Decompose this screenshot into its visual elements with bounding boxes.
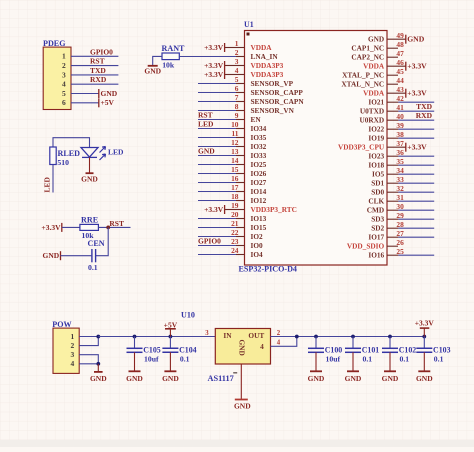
ground POW [97,364,99,372]
wire junction down to CEN [96,227,109,255]
svg-text:3: 3 [235,57,239,66]
svg-text:CAP1_NC: CAP1_NC [351,44,384,53]
ground C105 [134,352,136,371]
svg-text:38: 38 [396,130,404,139]
svg-text:37: 37 [396,139,404,148]
connector PDEG body [43,47,71,109]
ground below LED [89,157,91,173]
ground C101 [352,352,354,371]
svg-text:VDD3P3_RTC: VDD3P3_RTC [251,205,297,214]
resistor RANT [162,53,179,60]
svg-text:RXD: RXD [90,75,107,84]
svg-text:39: 39 [396,121,404,130]
svg-text:GND: GND [144,66,161,75]
svg-text:VDD_SDIO: VDD_SDIO [347,242,385,251]
svg-text:IN: IN [223,331,232,340]
junction U10 pin4 [295,335,299,339]
svg-text:GND: GND [81,174,98,183]
LED D1 diode [81,148,98,158]
ground C102 [389,352,391,371]
power port tick [98,89,100,98]
svg-text:SENSOR_VP: SENSOR_VP [251,79,294,88]
svg-text:IO5: IO5 [372,170,385,179]
wire C102 top [389,337,391,349]
svg-text:29: 29 [396,211,404,220]
svg-text:U0RXD: U0RXD [359,116,384,125]
svg-text:0.1: 0.1 [363,355,373,364]
svg-text:0.1: 0.1 [400,355,410,364]
junction C101 [351,335,355,339]
ground C103 [423,352,425,371]
svg-text:510: 510 [57,158,69,167]
svg-text:TXD: TXD [90,66,106,75]
connector POW body [53,328,79,373]
ground C100 [315,352,317,371]
svg-text:IO14: IO14 [251,187,267,196]
svg-text:RANT: RANT [162,44,186,53]
svg-text:49: 49 [396,31,404,40]
wire POW pin4 [79,363,98,365]
svg-text:POW: POW [52,320,71,329]
svg-text:48: 48 [396,40,404,49]
svg-text:34: 34 [396,166,404,175]
svg-text:+3.3V: +3.3V [407,62,427,71]
wire C103 top [423,337,425,349]
junction C105 [133,335,137,339]
U1 pin 14 IO25 [198,156,267,169]
svg-text:GND: GND [308,374,325,383]
svg-text:IO17: IO17 [368,233,384,242]
wire PDEG pin 5 [71,93,99,95]
svg-text:28: 28 [396,220,404,229]
U1 pin 23 IO0 [198,237,263,250]
resistor RLED [50,147,56,165]
wire PDEG pin 1 [71,55,118,57]
svg-text:32: 32 [396,184,404,193]
wire +3.3V to RRE [62,226,80,228]
svg-text:6: 6 [235,84,239,93]
capacitor C104 [162,347,178,349]
U1 pin 43 VDDA [363,85,427,98]
U1 pin 5 SENSOR_VP [198,75,294,88]
U1 pin 38 IO19 [368,130,434,143]
svg-text:RST: RST [90,57,105,66]
svg-text:10k: 10k [162,61,175,70]
U1 pin 45 XTAL_P_NC [342,67,404,80]
svg-text:IO26: IO26 [251,169,267,178]
svg-text:IO4: IO4 [251,250,264,259]
U1 pin 41 U0TXD [360,102,434,116]
U1 pin 37 VDD3P3_CPU [338,139,427,152]
svg-text:C104: C104 [179,345,197,354]
U1 pin 31 CLK [368,193,434,206]
svg-text:U1: U1 [244,20,254,29]
capacitor CEN [91,249,93,262]
svg-text:10: 10 [231,120,239,129]
svg-text:21: 21 [231,219,239,228]
U1 pin 15 IO26 [198,165,267,178]
svg-text:VDDA: VDDA [251,43,273,52]
svg-text:13: 13 [231,147,239,156]
U1 pin 33 SD1 [371,175,434,188]
svg-text:25: 25 [396,247,404,256]
U1 pin 19 VDD3P3_RTC [204,201,297,214]
U1 pin 18 IO12 [198,192,267,205]
svg-text:1: 1 [62,52,66,61]
svg-text:GND: GND [345,374,362,383]
U1 pin 34 IO5 [372,166,434,179]
wire U10 out rail [271,336,425,338]
U1 pin 30 CMD [367,202,434,215]
wire POW pin2 [79,337,98,346]
svg-text:VDDA: VDDA [363,89,385,98]
wire GND to CEN [61,255,92,257]
U1 pin 48 CAP1_NC [351,40,404,53]
wire RANT left to ground [153,56,162,65]
wire RRE to junction [98,226,130,228]
svg-text:+3.3V: +3.3V [415,319,435,328]
svg-text:20: 20 [231,210,239,219]
U1 pin 3 VDDA3P3 [204,57,284,70]
svg-text:IO0: IO0 [251,241,264,250]
svg-text:7: 7 [235,93,239,102]
U1 pin 40 U0RXD [359,111,434,125]
U1 pin 12 IO32 [198,138,267,151]
U1 pin 47 CAP2_NC [351,49,404,62]
wire C100 top [315,337,317,349]
svg-text:GND: GND [162,374,179,383]
svg-text:VDDA: VDDA [363,62,385,71]
U1 pin 11 IO35 [198,129,267,142]
svg-text:47: 47 [396,49,404,58]
wire POW pin1 to rail [79,336,98,338]
svg-text:18: 18 [231,192,239,201]
svg-text:0.1: 0.1 [88,263,98,272]
U1 pin 27 IO17 [368,229,434,242]
svg-text:14: 14 [231,156,239,165]
junction C100 [314,335,318,339]
svg-text:SENSOR_VN: SENSOR_VN [251,106,295,115]
svg-text:4: 4 [235,66,239,75]
svg-text:IO13: IO13 [251,214,267,223]
svg-text:30: 30 [396,202,404,211]
U1 pin 29 SD3 [371,211,434,224]
svg-text:IO32: IO32 [251,142,267,151]
wire RANT to U1 pin 2 [179,56,236,58]
wire PDEG pin 4 [71,83,118,85]
svg-text:ESP32-PICO-D4: ESP32-PICO-D4 [239,264,297,273]
svg-text:CLK: CLK [368,197,384,206]
svg-text:15: 15 [231,165,239,174]
svg-text:IO12: IO12 [251,196,267,205]
U1 pin 28 SD2 [371,220,434,233]
svg-text:AS1117: AS1117 [208,374,234,383]
svg-text:35: 35 [396,157,404,166]
U1 pin 39 IO22 [368,121,434,134]
junction RST node [106,226,110,230]
wire POW pin3 [79,355,98,364]
svg-text:11: 11 [232,129,239,138]
junction C104 [169,335,173,339]
U1 pin 17 IO14 [198,183,267,196]
wire C101 top [352,337,354,349]
svg-text:+5V: +5V [164,320,178,329]
U1 pin 36 IO23 [368,148,434,161]
svg-text:0.1: 0.1 [180,355,190,364]
ground RANT [148,65,158,67]
U1 pin 4 VDDA3P3 [204,66,284,79]
svg-text:46: 46 [396,58,404,67]
svg-text:24: 24 [231,246,239,255]
svg-text:3: 3 [70,350,74,359]
capacitor C102 [382,347,398,349]
svg-text:33: 33 [396,175,404,184]
regulator U10 body [215,329,270,365]
svg-text:2: 2 [277,330,281,337]
svg-text:IO22: IO22 [368,125,384,134]
U1 pin 25 IO16 [368,247,434,260]
svg-text:SENSOR_CAPP: SENSOR_CAPP [251,88,304,97]
svg-text:C103: C103 [433,345,451,354]
LED arrow 1 [100,147,106,153]
svg-text:U10: U10 [181,310,195,319]
svg-text:RST: RST [109,219,124,228]
svg-text:GND: GND [368,35,384,44]
svg-text:U0TXD: U0TXD [360,107,384,116]
LED cathode bar [82,156,97,158]
svg-text:GND: GND [90,374,107,383]
U1 pin 21 IO15 [198,219,267,232]
svg-text:+3.3V: +3.3V [407,89,427,98]
svg-text:XTAL_N_NC: XTAL_N_NC [341,80,384,89]
junction POW gnd [96,362,100,366]
svg-text:IO15: IO15 [251,223,267,232]
junction C102 [388,335,392,339]
svg-text:SENSOR_CAPN: SENSOR_CAPN [251,97,305,106]
U1 pin 7 SENSOR_CAPN [198,93,304,106]
svg-text:GND: GND [238,340,247,356]
junction POW +5V [96,335,100,339]
wire RLED bottom [52,165,54,193]
svg-text:TXD: TXD [416,102,432,111]
svg-text:26: 26 [396,238,404,247]
svg-text:IO16: IO16 [368,251,384,260]
U1 pin 20 IO13 [198,210,267,223]
svg-text:RXD: RXD [416,111,433,120]
svg-text:12: 12 [231,138,239,147]
capacitor C101 [345,347,361,349]
svg-text:+3.3V: +3.3V [204,205,224,214]
svg-text:+3.3V: +3.3V [407,143,427,152]
U1 pin 2 LNA_IN [235,48,279,61]
U1 pin 16 IO27 [198,174,267,187]
wire U10 pin4 [271,337,297,347]
wire PDEG pin 2 [71,65,118,67]
svg-text:IO2: IO2 [251,232,264,241]
svg-text:17: 17 [231,183,239,192]
svg-text:36: 36 [396,148,404,157]
IC U1 body [245,31,388,266]
U1 pin 35 IO18 [368,157,434,170]
ground C104 [169,352,171,371]
svg-text:5: 5 [62,89,66,98]
svg-text:3: 3 [62,70,66,79]
svg-text:PDEG: PDEG [43,39,66,48]
svg-text:SD0: SD0 [371,188,384,197]
svg-text:IO34: IO34 [251,124,267,133]
svg-text:C102: C102 [399,345,417,354]
U1 pin 32 SD0 [371,184,434,197]
U1 pin 42 IO21 [368,94,434,107]
svg-text:9: 9 [235,111,239,120]
svg-text:2: 2 [235,48,239,57]
U1 pin 49 GND [368,31,425,44]
svg-text:RRE: RRE [81,216,98,225]
svg-text:19: 19 [231,201,239,210]
svg-text:SD1: SD1 [371,179,384,188]
svg-text:1: 1 [70,332,74,341]
svg-text:IO18: IO18 [368,161,384,170]
svg-text:IO27: IO27 [251,178,267,187]
svg-text:OUT: OUT [248,331,264,340]
svg-text:VDD3P3_CPU: VDD3P3_CPU [338,143,385,152]
svg-text:2: 2 [70,341,74,350]
svg-text:45: 45 [396,67,404,76]
LED arrow 2 [100,154,106,160]
svg-text:6: 6 [62,98,66,107]
power port tick [98,98,100,107]
svg-text:GND: GND [382,374,399,383]
svg-text:44: 44 [396,76,404,85]
svg-text:+5V: +5V [101,98,115,107]
svg-text:4: 4 [260,342,264,351]
svg-text:10uf: 10uf [326,355,341,364]
wire PDEG pin 6 [71,102,99,104]
capacitor C105 [127,347,143,349]
svg-text:23: 23 [231,237,239,246]
resistor RRE [80,224,99,230]
svg-text:C101: C101 [362,345,380,354]
svg-text:3: 3 [205,330,209,337]
svg-text:GND: GND [101,89,118,98]
U1 pin 26 VDD_SDIO [347,238,404,251]
svg-text:IO19: IO19 [368,134,384,143]
svg-text:CEN: CEN [88,239,105,248]
svg-text:27: 27 [396,229,404,238]
svg-text:C100: C100 [325,345,343,354]
svg-text:4: 4 [62,80,66,89]
svg-text:GND: GND [43,251,60,260]
U1 pin 1 VDDA [204,39,272,52]
svg-text:41: 41 [396,103,404,112]
U1 pin 24 IO4 [198,246,263,259]
svg-text:4: 4 [277,339,281,346]
svg-text:CAP2_NC: CAP2_NC [351,53,384,62]
svg-text:+3.3V: +3.3V [204,43,224,52]
svg-text:22: 22 [231,228,239,237]
svg-text:4: 4 [70,359,74,368]
svg-text:IO23: IO23 [368,152,384,161]
U1 pin 8 SENSOR_VN [198,102,295,115]
U1 pin 10 IO34 [198,120,267,133]
wire +5V rail [98,336,215,338]
svg-text:8: 8 [235,102,239,111]
svg-text:43: 43 [396,85,404,94]
svg-text:LED: LED [108,148,124,157]
junction C103 [422,335,426,339]
ground U10 [240,364,242,400]
U1 pin 44 XTAL_N_NC [341,76,404,89]
svg-text:RST: RST [198,111,213,120]
svg-text:LNA_IN: LNA_IN [251,52,279,61]
U1 pin1 marker dot [247,33,250,36]
U1 pin 46 VDDA [363,58,427,71]
svg-text:GND: GND [234,401,251,410]
wire PDEG pin 3 [71,74,118,76]
svg-text:1: 1 [235,39,239,48]
wire C104 top [169,337,171,349]
svg-text:2: 2 [62,61,66,70]
svg-text:40: 40 [396,112,404,121]
svg-text:IO21: IO21 [368,98,384,107]
svg-text:0.1: 0.1 [434,355,444,364]
capacitor C103 [416,347,432,349]
svg-text:+3.3V: +3.3V [204,61,224,70]
svg-text:+3.3V: +3.3V [204,70,224,79]
svg-text:EN: EN [251,115,262,124]
svg-text:IO25: IO25 [251,160,267,169]
svg-text:GPIO0: GPIO0 [198,237,221,246]
svg-text:VDDA3P3: VDDA3P3 [251,61,284,70]
svg-text:SD3: SD3 [371,215,384,224]
svg-text:GND: GND [416,374,433,383]
svg-text:42: 42 [396,94,404,103]
svg-text:GND: GND [407,35,425,44]
svg-text:RLED: RLED [58,149,81,158]
svg-text:GND: GND [198,147,215,156]
svg-text:5: 5 [235,75,239,84]
U1 pin 6 SENSOR_CAPP [198,84,303,97]
svg-text:XTAL_P_NC: XTAL_P_NC [342,71,384,80]
svg-text:SD2: SD2 [371,224,384,233]
svg-text:16: 16 [231,174,239,183]
svg-text:VDDA3P3: VDDA3P3 [251,70,284,79]
wire RLED top [53,138,90,148]
U1 pin 13 IO33 [198,147,267,160]
capacitor C100 [308,347,324,349]
svg-text:IO35: IO35 [251,133,267,142]
svg-text:GND: GND [126,374,143,383]
svg-text:LED: LED [43,176,52,192]
U10 pin 1 number dash [233,372,237,374]
svg-text:GPIO0: GPIO0 [90,47,113,56]
wire C105 top [134,337,136,349]
svg-text:LED: LED [198,120,214,129]
U1 pin 9 EN [198,111,261,124]
svg-text:10uf: 10uf [144,355,159,364]
svg-text:IO33: IO33 [251,151,267,160]
svg-text:CMD: CMD [367,206,384,215]
U1 pin 22 IO2 [198,228,263,241]
svg-text:+3.3V: +3.3V [41,223,61,232]
svg-text:31: 31 [396,193,404,202]
svg-text:C105: C105 [143,345,161,354]
